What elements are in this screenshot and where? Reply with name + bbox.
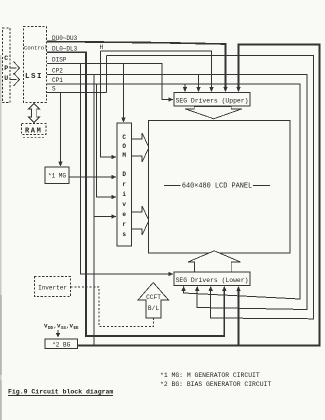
wire DISP: [47, 64, 170, 100]
CCFT backlight hollow arrow: [138, 283, 169, 319]
wire bias leg up into SEG Drivers Lower: [238, 289, 240, 346]
B/L label: [148, 305, 159, 312]
COM Drivers label: [122, 134, 126, 238]
arrowhead CP2 into SEG Drivers Upper: [196, 87, 200, 92]
label CP1: [52, 77, 63, 84]
arrowhead H line into SEG Drivers Upper: [209, 87, 213, 92]
BG label: [52, 342, 70, 349]
arrowhead bias leg into SEG Drivers Lower bottom: [236, 286, 240, 291]
svg-text:EE: EE: [74, 327, 80, 331]
arrowhead DU bus into SEG Drivers Upper: [223, 87, 227, 92]
arrowhead Vdd into BG box: [56, 333, 60, 337]
svg-text:*1 MG: *1 MG: [48, 173, 66, 180]
arrowhead CP2 branch into COM Drivers: [111, 214, 116, 218]
svg-text:CP2: CP2: [52, 68, 63, 75]
SEG Drivers Upper label: [176, 98, 249, 105]
Inverter box: [35, 277, 71, 297]
legend line 2: [160, 381, 271, 388]
svg-text:O: O: [122, 143, 126, 150]
svg-text:SEG Drivers (Lower): SEG Drivers (Lower): [176, 277, 249, 284]
wire H line drop to COM Drivers: [101, 51, 114, 157]
arrowhead DISP branch into SEG Drivers Lower left edge: [168, 272, 173, 276]
svg-text:CP1: CP1: [52, 77, 63, 84]
wire S: [47, 93, 107, 164]
Control label: [24, 45, 48, 52]
upper block arrow SEG Upper to LCD: [185, 106, 242, 119]
wire bias bridge top: [78, 45, 320, 346]
RAM box: [22, 124, 47, 138]
CPU box: [3, 28, 11, 103]
arrowhead S into MG box top: [58, 162, 62, 167]
wire DISP branch down to COM Drivers top: [123, 64, 125, 120]
arrowhead CP1 into SEG Drivers Upper: [183, 87, 187, 92]
svg-text:U: U: [4, 75, 8, 82]
wire CP1 branch down into SEG Drivers Upper: [184, 84, 186, 89]
arrowhead H drop into COM Drivers: [111, 155, 116, 159]
svg-text:CCFT: CCFT: [146, 294, 161, 301]
MG label: [48, 173, 66, 180]
svg-text:D: D: [122, 171, 126, 178]
svg-text:*2 BG: *2 BG: [52, 342, 70, 349]
legend line 1: [160, 372, 260, 379]
figure caption: [8, 389, 113, 396]
wire Vdd arrow into BG box: [57, 330, 59, 335]
svg-text:640×480 LCD PANEL: 640×480 LCD PANEL: [182, 183, 252, 191]
label DISP: [52, 57, 67, 64]
svg-text:RAM: RAM: [25, 128, 42, 136]
CPU to LSI open arrow 2: [10, 73, 20, 86]
LCD label leader dash left: [164, 184, 181, 186]
arrowhead Q wrap into SEG Drivers Lower bottom: [209, 286, 213, 291]
LCD panel box: [149, 121, 291, 254]
svg-text:Fig.9 Circuit block diagram: Fig.9 Circuit block diagram: [8, 389, 113, 396]
svg-text:C: C: [122, 134, 126, 141]
lower block arrow SEG Lower to LCD: [188, 251, 241, 272]
CCFT label: [146, 294, 161, 301]
svg-text:DISP: DISP: [52, 57, 67, 64]
svg-text:r: r: [122, 221, 126, 228]
Inverter label: [38, 285, 67, 292]
svg-text:LSI: LSI: [25, 73, 43, 81]
label H: [100, 44, 104, 51]
svg-text:r: r: [122, 181, 126, 188]
svg-text:Inverter: Inverter: [38, 285, 67, 292]
RAM label: [25, 128, 42, 136]
CPU label: [4, 55, 8, 82]
SEG Drivers Upper box: [174, 93, 250, 107]
arrowhead CP1 branch into COM Drivers: [111, 195, 116, 199]
svg-text:*2 BG: BIAS GENERATOR CIRCUIT: *2 BG: BIAS GENERATOR CIRCUIT: [160, 381, 271, 388]
svg-text:P: P: [4, 65, 8, 72]
LCD label leader dash right: [253, 184, 270, 186]
SEG Drivers Lower label: [176, 277, 249, 284]
arrowhead bridge into SEG Drivers Upper: [236, 87, 240, 92]
wire CP2 branch down to COM Drivers and bias line: [94, 75, 113, 346]
wire DL0~DL3 bus to bottom run: [47, 52, 224, 336]
arrowhead MG into COM Drivers: [111, 175, 116, 179]
wire DU0~DU3 bus: [47, 42, 226, 90]
COM Drivers box: [117, 123, 132, 246]
wire H line: [101, 51, 212, 89]
svg-text:DU0~DU3: DU0~DU3: [52, 35, 78, 42]
Vdd Vss Vee label: [44, 323, 79, 332]
label CP2: [52, 68, 63, 75]
svg-text:S: S: [52, 86, 56, 93]
arrowhead DISP branch into COM Drivers top: [121, 118, 125, 123]
COM to LCD hollow arrow 1: [132, 133, 150, 162]
BG box: [45, 339, 78, 349]
scanner left edge artifact: [0, 55, 2, 420]
COM to LCD hollow arrow 2: [132, 206, 150, 235]
svg-text:SEG Drivers (Upper): SEG Drivers (Upper): [176, 98, 249, 105]
wire Q riser from S line end: [106, 56, 108, 93]
LSI label: [25, 73, 43, 81]
svg-text:s: s: [122, 231, 126, 238]
SEG Drivers Lower box: [174, 272, 250, 286]
svg-text:e: e: [122, 211, 126, 218]
arrowhead CP1 wrap into SEG Drivers Lower bottom: [181, 286, 185, 291]
arrowhead DL bus into SEG Drivers Lower bottom: [222, 286, 226, 291]
wire MG to COM Drivers: [69, 176, 113, 178]
Control LSI box: [24, 27, 47, 103]
LCD panel label: [182, 183, 252, 191]
svg-text:M: M: [122, 152, 126, 159]
arrowhead CP2 wrap into SEG Drivers Lower bottom: [195, 286, 199, 291]
MG box: [45, 167, 69, 184]
svg-text:,V: ,V: [54, 323, 61, 330]
caption underline: [8, 395, 113, 397]
svg-text:,V: ,V: [66, 323, 73, 330]
LSI to RAM hollow double arrow: [29, 104, 40, 123]
wire Q line to right wrap: [107, 56, 314, 319]
arrowhead DISP into SEG Drivers Upper left edge: [168, 97, 173, 101]
svg-text:H: H: [100, 44, 104, 51]
svg-text:*1 MG: M GENERATOR CIRCUIT: *1 MG: M GENERATOR CIRCUIT: [160, 372, 260, 379]
wire CP1: [47, 84, 300, 299]
svg-text:Control: Control: [24, 45, 48, 52]
svg-text:v: v: [122, 201, 126, 208]
svg-text:i: i: [122, 191, 126, 198]
CPU to LSI open arrow 1: [10, 62, 20, 75]
wire CP1 branch down to COM Drivers: [97, 84, 114, 197]
dashed wire Inverter to CCFT: [71, 287, 154, 327]
label DL0~DL3: [52, 46, 78, 53]
svg-text:B/L: B/L: [148, 305, 159, 312]
wire DISP branch down to SEG Drivers Lower left edge: [81, 64, 171, 275]
wire CP2: [47, 75, 307, 310]
svg-text:C: C: [4, 55, 8, 62]
label DU0~DU3: [52, 35, 78, 42]
svg-text:DL0~DL3: DL0~DL3: [52, 46, 78, 53]
label S: [52, 86, 56, 93]
wire CP2 branch down into SEG Drivers Upper: [198, 75, 200, 90]
